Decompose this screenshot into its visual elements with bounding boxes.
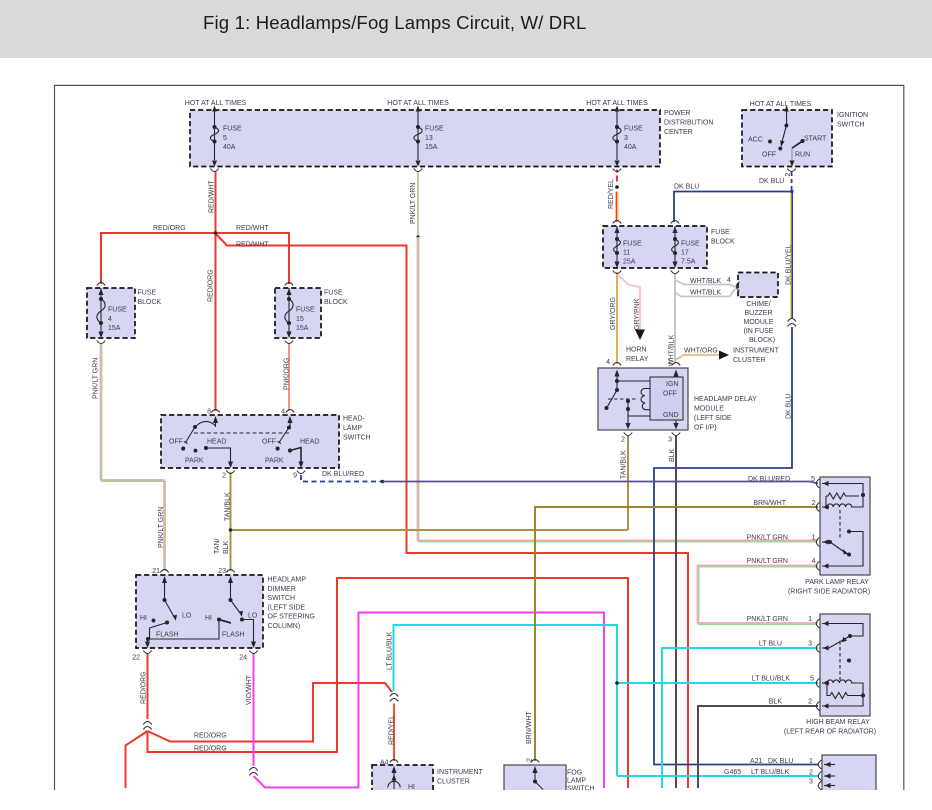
svg-text:2: 2 (785, 173, 792, 177)
svg-text:RED/ORG: RED/ORG (153, 225, 186, 232)
wire GRY/PNK fuse 11 to horn relay (617, 274, 645, 340)
svg-text:WHT/BLK: WHT/BLK (690, 278, 721, 285)
svg-text:BLOCK: BLOCK (711, 239, 735, 246)
chime/buzzer module box (738, 273, 778, 298)
svg-text:FUSE: FUSE (324, 290, 343, 297)
labels dimmer pins 22 24 (132, 655, 247, 662)
svg-text:PNK/LT GRN: PNK/LT GRN (93, 358, 100, 399)
svg-text:11: 11 (623, 249, 630, 256)
svg-text:2: 2 (222, 473, 226, 480)
svg-text:INSTRUMENT: INSTRUMENT (733, 348, 780, 355)
label pin 2 ignition (785, 173, 792, 177)
svg-text:5: 5 (811, 476, 815, 483)
svg-text:GND: GND (663, 412, 679, 419)
label headlamp delay module (694, 396, 757, 432)
node junction RED/WHT (214, 231, 218, 235)
labels RED/ORG RED/WHT junction (153, 225, 269, 249)
svg-text:2: 2 (809, 770, 813, 777)
label HOT AT ALL TIMES x4 (185, 100, 812, 108)
svg-text:4: 4 (812, 558, 816, 565)
svg-text:3: 3 (809, 779, 813, 786)
wire RED/ORG dimmer pin 22 down (147, 654, 149, 719)
svg-text:HEADLAMP DELAY: HEADLAMP DELAY (694, 396, 757, 403)
wire RED/ORG branch diagonal left down (126, 731, 148, 788)
headlamp switch dashed divider (194, 432, 290, 434)
svg-text:2: 2 (812, 500, 816, 507)
svg-text:22: 22 (132, 655, 140, 662)
svg-text:LO: LO (248, 613, 258, 620)
svg-text:8: 8 (207, 409, 211, 416)
svg-text:9: 9 (293, 473, 297, 480)
label HI cluster (408, 784, 415, 791)
svg-text:CLUSTER: CLUSTER (733, 357, 766, 364)
labels WHT/BLK chime (690, 277, 731, 297)
label instrument cluster (mid) (733, 348, 780, 365)
connector arc fog lamp switch pin 2 (531, 760, 539, 763)
svg-text:A4: A4 (380, 760, 389, 767)
wire DK BLU/YEL down right side (654, 192, 818, 765)
label ignition switch (837, 112, 868, 129)
svg-text:RELAY: RELAY (626, 356, 649, 363)
label RED/WHT vertical (209, 180, 216, 213)
label DK BLU/RED (322, 471, 364, 478)
labels IGN OFF GND (663, 381, 679, 419)
svg-text:LAMP: LAMP (343, 425, 362, 432)
park lamp relay pin arrows and arcs (823, 481, 829, 569)
svg-text:COLUMN): COLUMN) (268, 623, 301, 630)
wire DK BLU dashed from ignition switch pin 2 (791, 172, 793, 190)
wire PNK/LT GRN dashed below fuse 13 (417, 171, 419, 236)
svg-text:FUSE: FUSE (108, 307, 127, 314)
wire PNK/LT GRN fuse 13 to park lamp relay pin 1 (417, 237, 818, 542)
labels ignition positions (748, 136, 827, 159)
labels delay module pin numbers (606, 359, 672, 444)
svg-text:CHIME/: CHIME/ (746, 301, 771, 308)
connector arcs dimmer pins 21 23 22 24 (143, 570, 257, 654)
svg-text:5: 5 (223, 135, 227, 142)
svg-text:OFF: OFF (262, 439, 276, 446)
label high beam relay (784, 719, 876, 736)
instrument cluster box (bottom) (372, 765, 433, 795)
svg-text:CLUSTER: CLUSTER (437, 779, 470, 786)
svg-text:SWITCH: SWITCH (837, 122, 865, 129)
instrument cluster internals (bottom) (388, 766, 400, 789)
svg-text:OFF: OFF (663, 391, 677, 398)
svg-text:PARK: PARK (265, 458, 284, 465)
labels dimmer pins 21 23 (152, 568, 226, 575)
node dot PNK/LT GRN (416, 235, 419, 238)
svg-text:DIMMER: DIMMER (268, 586, 296, 593)
svg-text:FLASH: FLASH (222, 632, 245, 639)
svg-text:HEADLAMP: HEADLAMP (268, 577, 307, 584)
svg-text:DK BLU: DK BLU (786, 394, 793, 419)
svg-text:BLK: BLK (669, 448, 676, 462)
svg-text:HEAD-: HEAD- (343, 416, 365, 423)
label GRY/PNK (634, 298, 641, 330)
wire PNK/ORG fuse 15 to headlamp switch pin 4 (288, 344, 290, 411)
svg-text:BLK: BLK (223, 540, 230, 554)
connector arc below fuse 3 (613, 169, 621, 172)
high beam relay internals (822, 624, 865, 707)
label fog switch pin 2 (527, 758, 534, 762)
svg-text:PNK/LT GRN: PNK/LT GRN (747, 535, 788, 542)
svg-text:DK BLU: DK BLU (768, 758, 793, 765)
inline connector RED/YEL (390, 694, 398, 702)
svg-text:PNK/LT GRN: PNK/LT GRN (747, 616, 788, 623)
fuse 3 symbol (613, 106, 621, 167)
label WHT/BLK vertical (669, 335, 676, 366)
svg-text:1: 1 (809, 758, 813, 765)
svg-text:PNK/LT GRN: PNK/LT GRN (158, 507, 165, 548)
wire BRN/WHT park relay pin 2 to fog lamp switch (535, 507, 818, 761)
wire LT BLU/BLK branch to connector pin 2 (617, 775, 818, 777)
labels DK BLU (674, 178, 784, 191)
svg-text:IGN: IGN (666, 381, 678, 388)
connector arcs fuse 4 (97, 283, 105, 344)
label RED/ORG vertical (208, 269, 215, 302)
svg-text:GRY/PNK: GRY/PNK (634, 298, 641, 330)
labels dimmer positions (140, 613, 258, 639)
labels fuse 4 15A (108, 307, 127, 333)
svg-text:PNK/LT GRN: PNK/LT GRN (410, 183, 417, 224)
label PNK/ORG vertical (284, 358, 291, 390)
connector arcs fuse 17 (671, 221, 679, 274)
svg-text:ACC: ACC (748, 137, 763, 144)
label PNK/LT GRN left (93, 358, 100, 399)
svg-text:BLOCK: BLOCK (138, 299, 162, 306)
fuse 17 symbol (672, 226, 679, 268)
svg-text:OF STEERING: OF STEERING (268, 614, 315, 621)
labels headlamp switch pins 2 9 (222, 473, 297, 480)
svg-text:15A: 15A (108, 325, 121, 332)
svg-text:HOT AT ALL TIMES: HOT AT ALL TIMES (185, 100, 247, 107)
label fuse 5 40A (223, 126, 242, 152)
wire DK BLU/RED dashed from headlamp switch pin 9 (301, 475, 381, 482)
wire DK BLU/RED to park lamp relay pin 5 (383, 482, 819, 484)
fuse block box (fuses 11/17) (603, 226, 707, 268)
svg-text:2: 2 (527, 758, 534, 762)
connector arc cluster pin A4 (390, 760, 398, 763)
svg-text:TAN/BLK: TAN/BLK (225, 492, 232, 521)
svg-text:SWITCH: SWITCH (268, 595, 296, 602)
connector arc below fuse 13 (414, 169, 422, 172)
ignition switch box (742, 110, 832, 167)
wire RED/ORG junction to fuse 4 (101, 233, 216, 284)
svg-text:RED/WHT: RED/WHT (236, 225, 269, 232)
wire WHT/BLK to chime module upper (675, 274, 736, 287)
svg-text:2: 2 (808, 699, 812, 706)
svg-text:LO: LO (182, 613, 192, 620)
svg-text:GRY/ORG: GRY/ORG (610, 297, 617, 330)
svg-text:3: 3 (808, 641, 812, 648)
svg-text:HI: HI (408, 784, 415, 791)
fog lamp switch box (504, 765, 566, 795)
wire GRY/ORG fuse 11 to delay module pin 4 (616, 272, 618, 364)
high beam relay box (820, 614, 870, 716)
label PNK/LT GRN mid (158, 507, 165, 548)
svg-text:FUSE: FUSE (711, 229, 730, 236)
label fuse 13 15A (425, 126, 444, 152)
headlamp switch box (161, 415, 339, 468)
wire RED/YEL fuse 3 to fuse 11 (615, 170, 619, 223)
headlamp switch internals left half (182, 416, 233, 468)
svg-text:BRN/WHT: BRN/WHT (753, 500, 786, 507)
node DK BLU junction (790, 190, 794, 194)
wire VIO/WHT to low beam feed (254, 613, 605, 789)
fuse 13 symbol (414, 106, 422, 167)
svg-text:24: 24 (239, 655, 247, 662)
connector arc below ignition pin 2 (787, 169, 795, 172)
svg-text:(RIGHT SIDE RADIATOR): (RIGHT SIDE RADIATOR) (788, 589, 870, 596)
svg-text:17: 17 (681, 249, 689, 256)
svg-text:13: 13 (425, 135, 433, 142)
svg-text:DK BLU/RED: DK BLU/RED (748, 476, 790, 483)
power distribution center box (190, 110, 660, 167)
label VIO/WHT (246, 674, 253, 705)
svg-text:3: 3 (624, 135, 628, 142)
svg-text:25A: 25A (623, 258, 636, 265)
label GRY/ORG (610, 297, 617, 330)
wire LT BLU to high beam relay pin 3 (662, 648, 818, 788)
svg-text:FUSE: FUSE (681, 240, 700, 247)
svg-text:7.5A: 7.5A (681, 258, 696, 265)
svg-text:BRN/WHT: BRN/WHT (526, 711, 533, 744)
svg-text:FUSE: FUSE (138, 290, 157, 297)
svg-text:HOT AT ALL TIMES: HOT AT ALL TIMES (750, 101, 812, 108)
svg-text:4: 4 (281, 409, 285, 416)
svg-text:FOG: FOG (567, 770, 582, 777)
svg-text:RED/WHT: RED/WHT (236, 242, 269, 249)
wire VIO/WHT dimmer pin 24 down (253, 654, 255, 766)
svg-text:15: 15 (296, 316, 304, 323)
svg-text:TAN/BLK: TAN/BLK (621, 450, 628, 479)
label headlamp dimmer switch (268, 577, 315, 631)
svg-text:RUN: RUN (795, 152, 810, 159)
connector arc below fuse 5 (210, 169, 218, 172)
high beam relay pin arrows and arcs (823, 621, 829, 709)
svg-text:FUSE: FUSE (425, 126, 444, 133)
labels fuse 15 15A (296, 307, 315, 333)
svg-text:LT BLU/BLK: LT BLU/BLK (751, 769, 790, 776)
wire RED/ORG upper branch to instrument cluster (148, 683, 393, 742)
label RED/ORG pin22 (141, 671, 148, 704)
svg-text:MODULE: MODULE (744, 319, 774, 326)
svg-text:OFF: OFF (762, 152, 776, 159)
svg-text:2: 2 (621, 437, 625, 444)
wire PNK/LT GRN park relay pin 4 to high beam relay pin 1 (697, 565, 818, 624)
svg-text:DISTRIBUTION: DISTRIBUTION (664, 120, 713, 127)
connector arcs fuse 11 (613, 221, 621, 274)
svg-text:(LEFT SIDE: (LEFT SIDE (268, 604, 306, 611)
svg-text:BLOCK: BLOCK (324, 299, 348, 306)
svg-text:HIGH BEAM RELAY: HIGH BEAM RELAY (806, 719, 870, 726)
svg-text:POWER: POWER (664, 110, 690, 117)
label DK BLU/YEL (786, 244, 793, 285)
connector arcs fuse 15 (285, 283, 293, 344)
wire RED/ORG junction down to headlamp switch pin 8 (215, 233, 217, 411)
park lamp relay box (820, 477, 870, 575)
label TAN/BLK vertical (225, 492, 232, 521)
inline connector RED/ORG below pin 22 (143, 722, 151, 730)
label BLK delay (669, 448, 676, 462)
svg-text:1: 1 (667, 359, 671, 366)
connector arcs headlamp switch pins 8 4 2 9 (211, 410, 305, 474)
wire LT BLU/BLK branch to high beam relay pin 5 (615, 681, 818, 685)
label horn relay (626, 347, 649, 364)
label TAN/ BLK two line (214, 539, 230, 554)
svg-text:FUSE: FUSE (623, 240, 642, 247)
svg-text:3: 3 (668, 437, 672, 444)
fuse 4 symbol (97, 288, 105, 338)
node DK BLU/RED dot (381, 480, 385, 484)
wire DK BLU to fuse 17 (674, 192, 792, 223)
svg-text:23: 23 (218, 568, 226, 575)
bottom connector pins (824, 762, 835, 788)
svg-text:DK BLU/RED: DK BLU/RED (322, 471, 364, 478)
label RED/YEL bottom (389, 715, 396, 745)
svg-text:RED/ORG: RED/ORG (141, 671, 148, 704)
svg-text:40A: 40A (223, 144, 236, 151)
svg-text:FUSE: FUSE (624, 126, 643, 133)
svg-text:HEAD: HEAD (207, 439, 226, 446)
label PNK/LT GRN below fuse 13 (410, 183, 417, 224)
svg-text:1: 1 (808, 616, 812, 623)
svg-text:RED/ORG: RED/ORG (194, 733, 227, 740)
label fuse block mid (324, 290, 348, 307)
headlamp dimmer switch box (136, 575, 263, 648)
svg-text:PARK: PARK (185, 458, 204, 465)
label fuse 3 40A (624, 126, 643, 152)
label TAN/BLK delay (621, 450, 628, 479)
svg-text:A21: A21 (750, 758, 763, 765)
label LT BLU/BLK vertical (387, 631, 394, 670)
svg-text:4: 4 (108, 316, 112, 323)
svg-text:BLK: BLK (769, 699, 783, 706)
wire TAN/BLK headlamp switch pin 2 to dimmer pin 23 (230, 472, 232, 571)
svg-text:(IN FUSE: (IN FUSE (744, 328, 774, 335)
label DK BLU vertical (786, 394, 793, 419)
label WHT/ORG (684, 348, 718, 355)
label head-lamp switch (343, 416, 371, 442)
svg-text:HI: HI (205, 615, 212, 622)
svg-text:START: START (804, 136, 827, 143)
bottom right connector box (822, 755, 876, 795)
labels RED/ORG horizontals (194, 733, 227, 753)
svg-text:HOT AT ALL TIMES: HOT AT ALL TIMES (586, 100, 648, 107)
svg-text:4: 4 (727, 277, 731, 284)
svg-text:SWITCH: SWITCH (343, 435, 371, 442)
dimmer switch internals (145, 576, 256, 648)
label power distribution center (664, 110, 713, 136)
svg-text:RED/ORG: RED/ORG (208, 269, 215, 302)
wire RED/WHT junction diagonal to fog lamp feed (216, 234, 689, 789)
labels fuse 11 25A (623, 240, 642, 265)
labels park lamp relay rows (747, 476, 816, 565)
park lamp relay internals (822, 484, 865, 567)
label A4 (380, 760, 389, 767)
wire BLK high beam relay pin 2 down (698, 706, 818, 788)
svg-text:HI: HI (140, 615, 147, 622)
svg-text:IGNITION: IGNITION (837, 112, 868, 119)
svg-text:CENTER: CENTER (664, 129, 693, 136)
ignition switch internals (769, 105, 804, 167)
svg-text:RED/ORG: RED/ORG (194, 746, 227, 753)
wire WHT/ORG to instrument cluster arrow (675, 351, 729, 361)
svg-text:1: 1 (812, 535, 816, 542)
svg-text:FUSE: FUSE (296, 307, 315, 314)
svg-text:DK BLU: DK BLU (759, 178, 784, 185)
fuse block box (fuse 15) (275, 288, 321, 338)
svg-text:4: 4 (606, 359, 610, 366)
wire RED/WHT junction to fuse 15 (216, 233, 290, 284)
svg-text:21: 21 (152, 568, 160, 575)
svg-text:(LEFT REAR OF RADIATOR): (LEFT REAR OF RADIATOR) (784, 729, 876, 736)
svg-text:OF I/P): OF I/P) (694, 425, 717, 432)
wire TAN/BLK horizontal link (229, 528, 628, 532)
svg-text:LT BLU/BLK: LT BLU/BLK (752, 676, 791, 683)
svg-text:INSTRUMENT: INSTRUMENT (437, 769, 484, 776)
wire LT BLU/BLK dimmer area to relays (394, 625, 618, 776)
wire TAN/BLK delay module pin 2 down (627, 436, 629, 530)
svg-text:(LEFT SIDE: (LEFT SIDE (694, 415, 732, 422)
svg-text:G465: G465 (724, 769, 741, 776)
svg-text:DK BLU: DK BLU (674, 184, 699, 191)
label fog lamp switch (567, 770, 595, 793)
fuse 11 symbol (614, 226, 621, 268)
svg-text:BUZZER: BUZZER (745, 310, 773, 317)
svg-text:HORN: HORN (626, 347, 647, 354)
label fuse block (11/17) (711, 229, 735, 246)
svg-text:40A: 40A (624, 144, 637, 151)
wire WHT/BLK to chime module lower (675, 289, 736, 297)
svg-text:15A: 15A (296, 325, 309, 332)
svg-text:15A: 15A (425, 144, 438, 151)
white clip below drawing (0, 790, 932, 810)
label fuse block left (138, 290, 162, 307)
fuse 5 symbol (210, 106, 218, 167)
svg-text:PARK LAMP RELAY: PARK LAMP RELAY (805, 579, 869, 586)
label RED/YEL (608, 179, 615, 209)
connector arcs delay module pins 4 1 2 3 (613, 363, 680, 436)
wire RED/YEL to instrument cluster pin A4 (393, 704, 395, 762)
label instrument cluster bottom (437, 769, 484, 786)
labels headlamp switch pins 8 4 (207, 409, 285, 416)
svg-text:LAMP: LAMP (567, 778, 586, 785)
svg-text:RED/YEL: RED/YEL (608, 179, 615, 209)
svg-text:OFF: OFF (169, 439, 183, 446)
svg-text:FLASH: FLASH (156, 632, 179, 639)
svg-text:WHT/BLK: WHT/BLK (690, 290, 721, 297)
svg-text:PNK/ORG: PNK/ORG (284, 358, 291, 390)
svg-text:DK BLU/YEL: DK BLU/YEL (786, 244, 793, 285)
svg-text:5: 5 (810, 676, 814, 683)
svg-text:RED/YEL: RED/YEL (389, 715, 396, 745)
fog lamp switch internals (532, 766, 543, 790)
svg-text:RED/WHT: RED/WHT (209, 180, 216, 213)
svg-text:HEAD: HEAD (300, 439, 319, 446)
fuse block box (fuse 4) (87, 288, 135, 338)
frame border (55, 85, 904, 790)
svg-text:LT BLU/BLK: LT BLU/BLK (387, 631, 394, 670)
connector arc chime module pin 4 (736, 282, 739, 291)
labels fuse 17 7.5A (681, 240, 700, 265)
svg-text:LT BLU: LT BLU (759, 641, 782, 648)
svg-text:HOT AT ALL TIMES: HOT AT ALL TIMES (387, 100, 449, 107)
wire RED/ORG lower branch to right (148, 578, 629, 788)
label chime buzzer module (744, 301, 776, 344)
labels high beam relay rows (747, 616, 814, 706)
svg-text:WHT/ORG: WHT/ORG (684, 348, 718, 355)
